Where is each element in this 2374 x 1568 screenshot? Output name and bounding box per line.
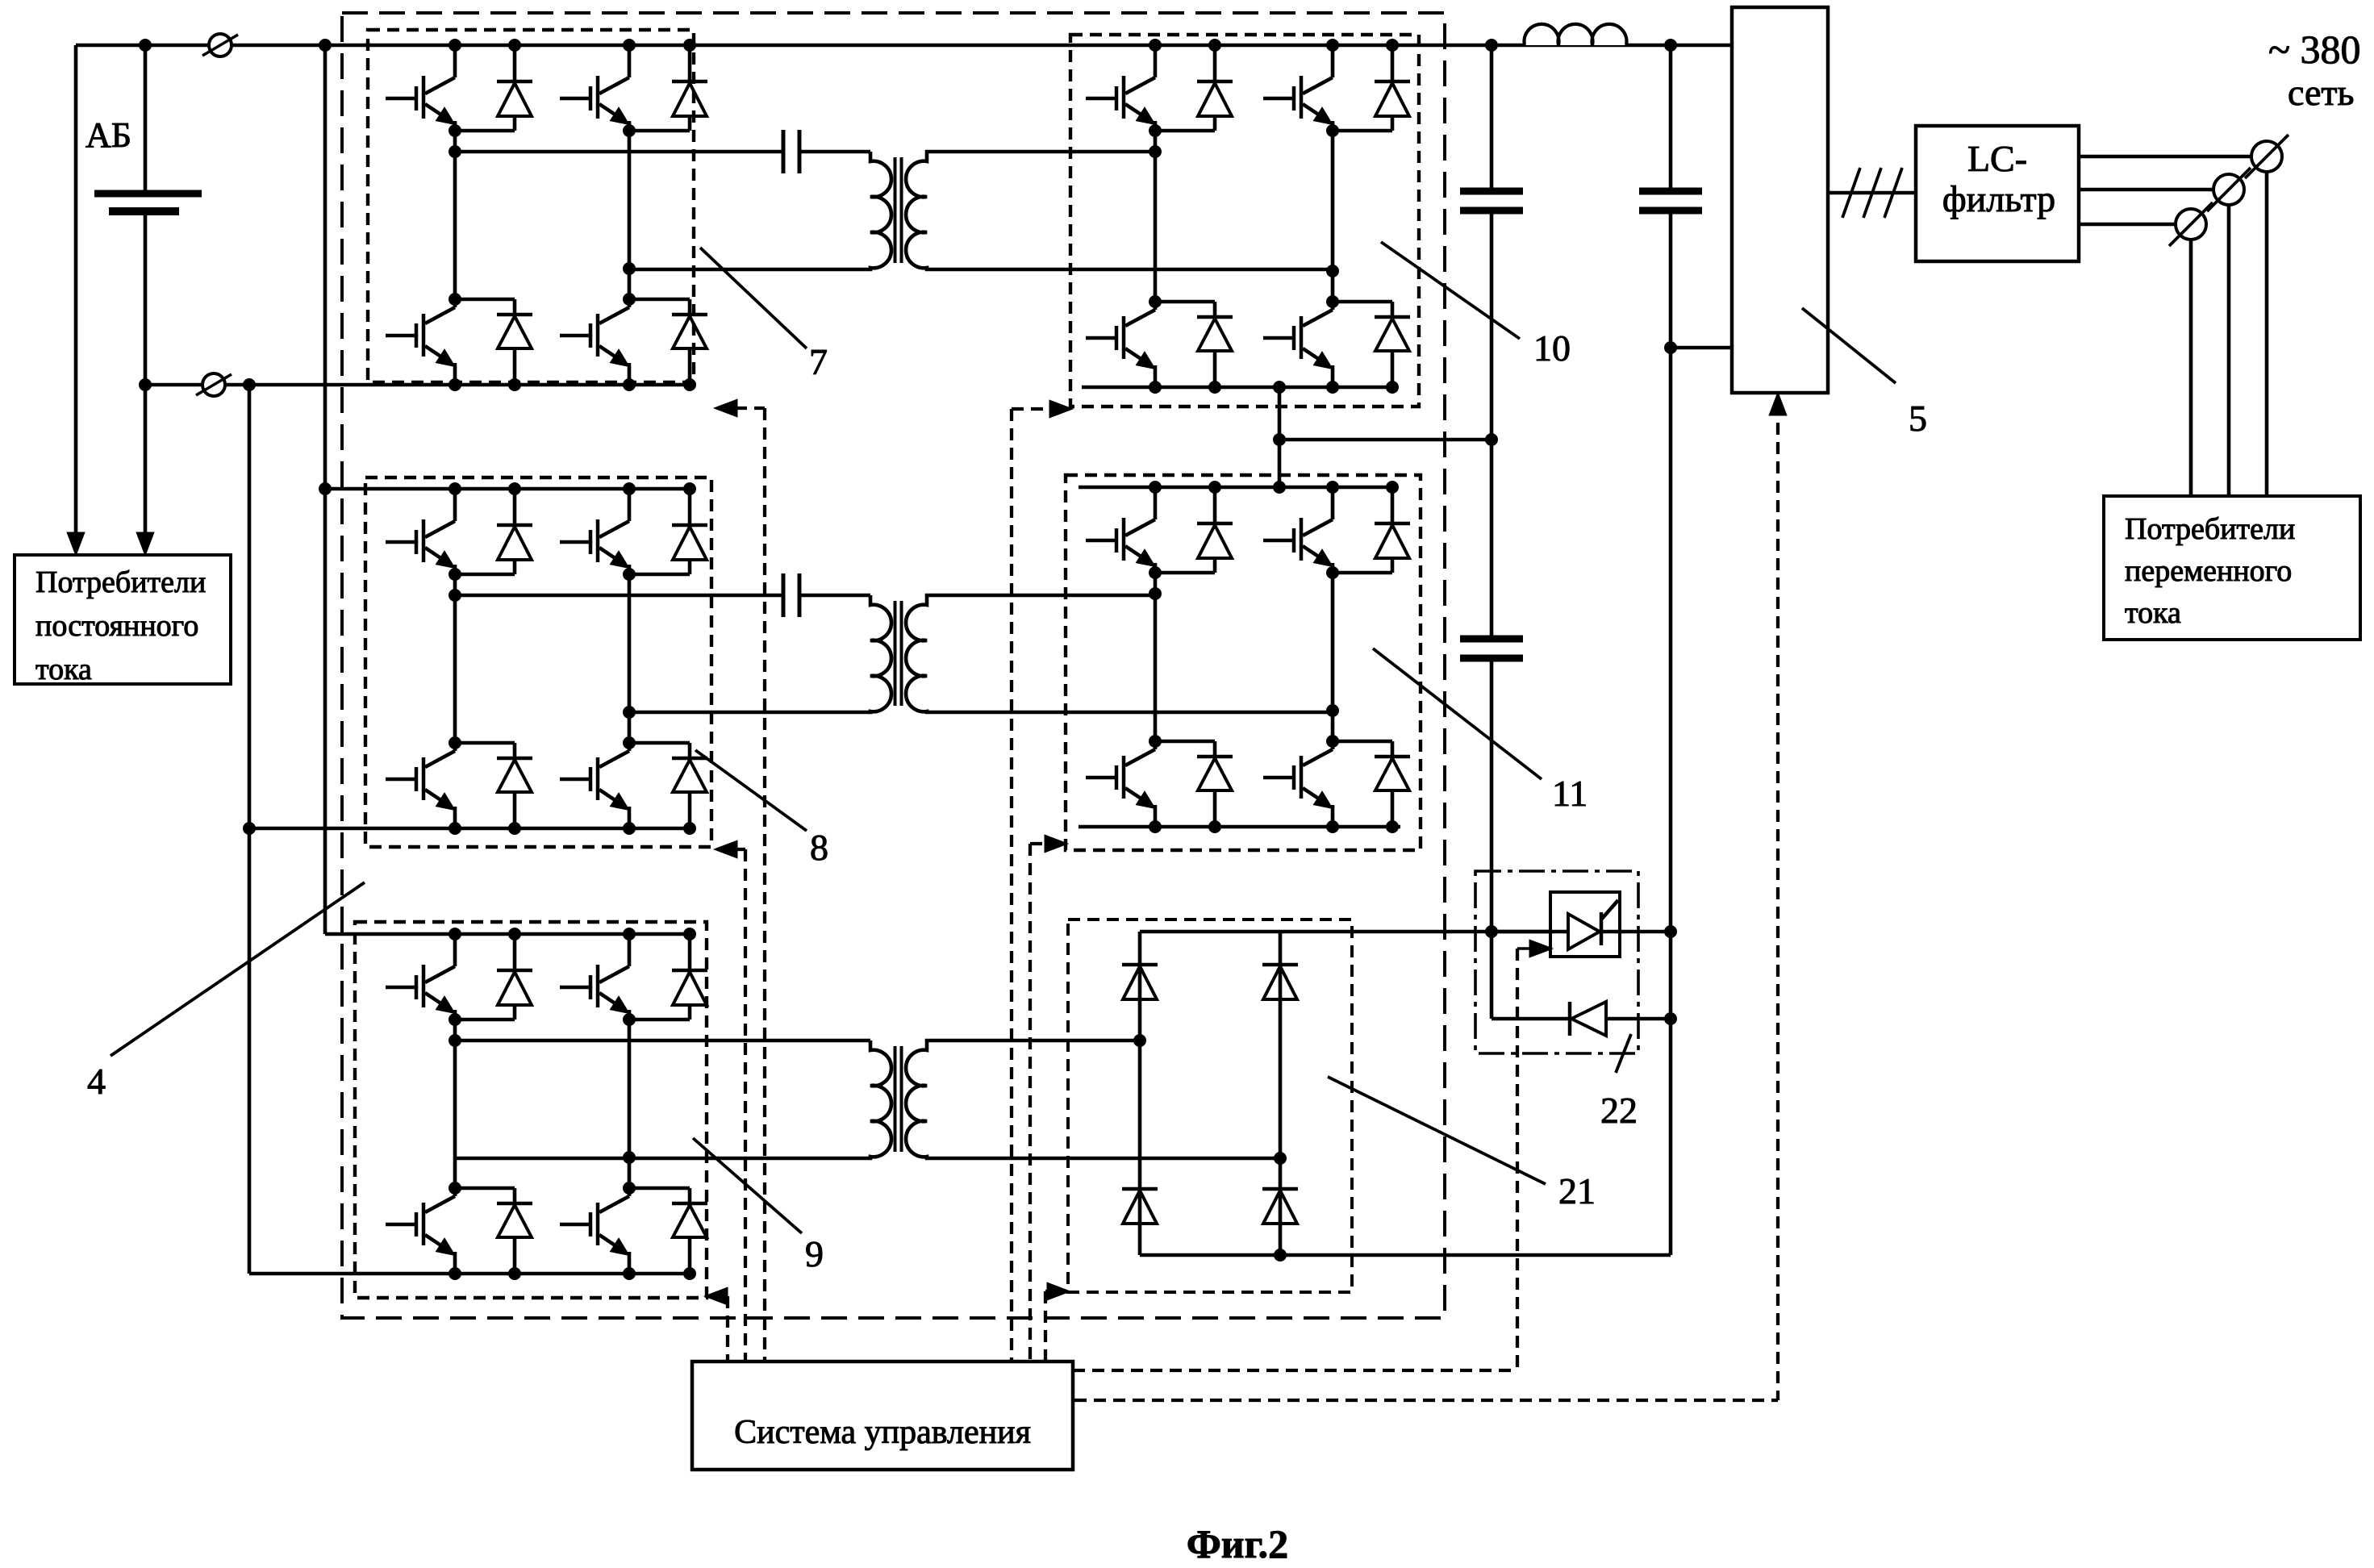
svg-text:Потребители: Потребители — [35, 565, 206, 599]
svg-text:постоянного: постоянного — [35, 609, 198, 643]
svg-text:9: 9 — [805, 1233, 824, 1274]
svg-text:LC-: LC- — [1967, 138, 2027, 179]
svg-text:АБ: АБ — [86, 115, 131, 155]
svg-text:8: 8 — [810, 827, 828, 868]
svg-text:тока: тока — [2125, 596, 2181, 630]
svg-text:тока: тока — [35, 653, 92, 686]
svg-text:Потребители: Потребители — [2125, 512, 2295, 546]
svg-text:переменного: переменного — [2125, 554, 2292, 588]
svg-text:7: 7 — [809, 341, 828, 382]
svg-text:5: 5 — [1909, 398, 1927, 439]
svg-text:Фиг.2: Фиг.2 — [1187, 1521, 1288, 1566]
svg-text:22: 22 — [1600, 1090, 1638, 1131]
svg-text:сеть: сеть — [2288, 72, 2354, 113]
svg-text:Система управления: Система управления — [734, 1414, 1031, 1451]
svg-text:10: 10 — [1533, 327, 1571, 369]
svg-text:21: 21 — [1558, 1170, 1596, 1211]
svg-text:фильтр: фильтр — [1942, 178, 2055, 219]
svg-text:11: 11 — [1552, 773, 1588, 814]
svg-text:~ 380: ~ 380 — [2268, 27, 2361, 72]
svg-text:4: 4 — [87, 1061, 106, 1102]
